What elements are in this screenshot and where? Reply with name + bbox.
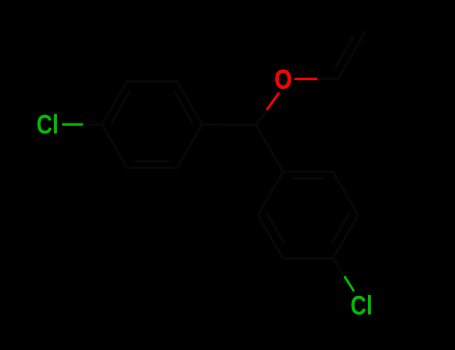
wire ring A inner double bond on L2-L3 bbox=[136, 160, 169, 162]
vinyl C=C double bond main line bbox=[338, 32, 365, 79]
svg-text:Cl: Cl bbox=[351, 290, 373, 320]
wire ring A edge L3-L4 bbox=[102, 125, 127, 168]
bond O to vinyl CH (carbon half) bbox=[319, 78, 339, 80]
vinyl C=C double bond inner line bbox=[336, 37, 353, 67]
wire ring B edge C5-C6 bbox=[258, 215, 283, 258]
wire ring B edge C4-C5 bbox=[283, 257, 333, 259]
wire ring B edge C6-C1 bbox=[258, 172, 283, 215]
wire ring A inner double bond on L4-L5 bbox=[112, 92, 129, 122]
wire ring A edge L6-L1 bbox=[177, 81, 202, 124]
bond ring A to central CH bbox=[202, 123, 256, 126]
svg-text:O: O bbox=[275, 64, 293, 94]
bond central CH to O (carbon half) bbox=[256, 109, 267, 125]
wire ring B edge C2-C3 bbox=[333, 172, 358, 215]
benzene ring A (left, 4-chlorophenyl) bbox=[102, 81, 202, 168]
wire ring B edge C1-C2 bbox=[283, 171, 333, 173]
bond Cl1 to ring A (carbon half) bbox=[82, 123, 102, 125]
wire ring B inner double bond on C5-C6 bbox=[267, 213, 284, 243]
wire ring B edge C3-C4 bbox=[333, 215, 358, 258]
wire ring A edge L1-L2 bbox=[177, 125, 202, 168]
bond Cl1 to ring A (chlorine half) bbox=[63, 123, 82, 125]
wire ring A inner double bond on L6-L1 bbox=[175, 92, 192, 122]
bond ring B to Cl2 (chlorine half) bbox=[345, 277, 354, 290]
wire ring A edge L2-L3 bbox=[127, 167, 177, 169]
svg-text:Cl: Cl bbox=[37, 110, 59, 140]
wire ring B inner double bond on C1-C2 bbox=[292, 177, 325, 179]
wire ring A edge L5-L6 bbox=[127, 80, 177, 82]
benzene ring B (lower right, 4-chlorophenyl) bbox=[258, 172, 358, 259]
bond central CH to ring B bbox=[256, 125, 283, 172]
bond ring B to Cl2 (carbon half) bbox=[333, 258, 345, 277]
wire ring B inner double bond on C3-C4 bbox=[332, 213, 349, 243]
bond central CH to O (oxygen half) bbox=[267, 93, 278, 109]
wire ring A edge L4-L5 bbox=[102, 81, 127, 124]
bond O to vinyl CH (oxygen half) bbox=[295, 78, 318, 80]
